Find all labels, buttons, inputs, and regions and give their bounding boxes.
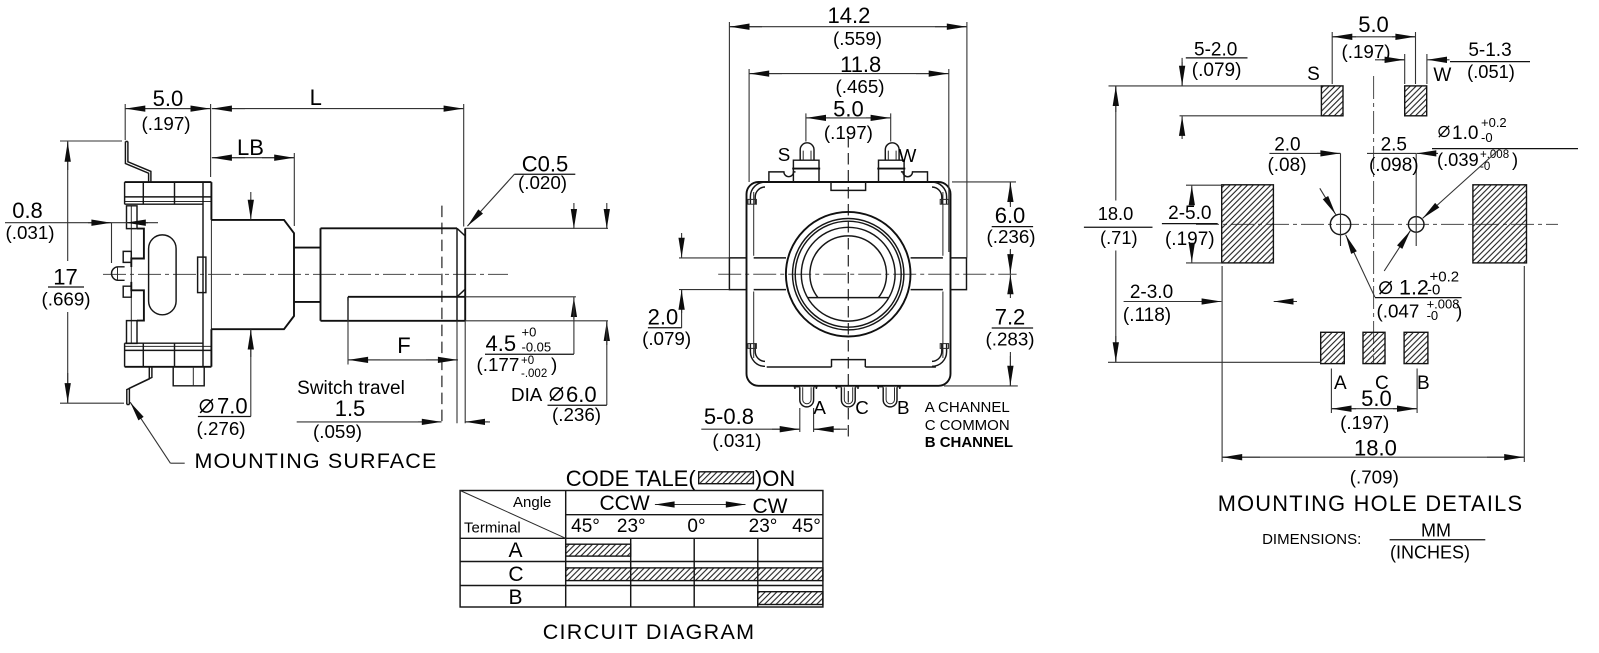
slot B [1404,332,1428,363]
dim LB [212,153,294,226]
svg-text:CIRCUIT DIAGRAM: CIRCUIT DIAGRAM [543,620,756,644]
svg-text:(.051): (.051) [1467,61,1515,82]
svg-text:(.669): (.669) [41,289,90,310]
bracket clip upper [123,251,131,262]
svg-text:(.020): (.020) [518,172,567,193]
dim L [212,104,464,227]
top ear left [769,172,796,182]
svg-text:Angle: Angle [513,494,551,511]
svg-text:(.197): (.197) [141,113,190,134]
side slot right [1473,185,1527,263]
dim 5.0 bottom [1331,369,1417,414]
bracket clip lower [123,286,131,297]
shaft chamfer lines [457,228,465,320]
top mounting plate [125,181,212,183]
svg-text:+.008: +.008 [1480,149,1509,161]
slot A [1321,332,1345,363]
svg-text:18.0: 18.0 [1354,436,1397,461]
svg-text:(.039: (.039 [1437,149,1479,170]
svg-text:(.08): (.08) [1267,155,1306,176]
svg-text:): ) [1512,149,1518,170]
hatch sample [699,472,754,484]
svg-text:1.0: 1.0 [1452,123,1478,144]
svg-text:(.197): (.197) [1340,412,1389,433]
svg-text:-0: -0 [1427,308,1439,323]
terminal pin C [841,387,855,407]
corner curl bottom-right [932,343,947,366]
svg-text:23°: 23° [617,516,646,537]
shaft flat chord [808,297,889,299]
dim 5-0.8 pins [800,408,814,432]
svg-text:2-3.0: 2-3.0 [1130,282,1173,303]
svg-text:(.177: (.177 [477,354,520,375]
svg-text:7.0: 7.0 [217,394,248,419]
dim 17 left [60,141,124,403]
corner curl bottom-left [750,343,765,366]
svg-text:(.236): (.236) [552,404,601,425]
top mounting leg [125,142,150,183]
bottom terminal tab [173,367,204,386]
extension of shaft edges [457,228,608,423]
svg-text:): ) [551,354,557,375]
svg-text:(.031): (.031) [712,430,761,451]
svg-text:-.002: -.002 [521,368,547,380]
svg-text:5.0: 5.0 [1358,12,1389,37]
svg-text:14.2: 14.2 [827,3,870,28]
svg-text:6.0: 6.0 [995,203,1026,228]
svg-text:23°: 23° [749,516,778,537]
ring double [793,219,904,330]
side tab right [951,258,967,290]
top ear right [901,172,928,182]
svg-text:0°: 0° [687,516,705,537]
svg-text:A: A [508,539,522,562]
svg-text:11.8: 11.8 [840,52,881,77]
slot W [1405,86,1427,116]
dim 5.0 terminals [806,113,891,141]
corner curl top-left [750,182,765,204]
svg-text:(.031): (.031) [5,222,54,243]
ring outer thick [786,212,911,337]
svg-text:(.465): (.465) [835,76,884,97]
svg-text:A: A [1334,373,1347,394]
inner slot lines [754,258,943,290]
dim 5.0 top-left [125,104,210,177]
pilot hole 1.2 [1330,214,1350,234]
svg-text:(.709): (.709) [1350,467,1399,488]
horizontal centerline [103,273,508,275]
dim 5.0 top [1332,32,1415,84]
center peg [112,267,125,281]
slot C [1363,332,1385,363]
bar A [566,544,631,556]
svg-text:(.059): (.059) [313,421,362,442]
svg-text:LB: LB [237,135,264,160]
svg-text:-0: -0 [1480,161,1490,173]
vertical centerline dashed [847,136,849,437]
svg-text:B: B [1417,373,1430,394]
svg-text:+0: +0 [522,325,537,340]
dim 6.0 right [952,182,1016,204]
svg-text:DIMENSIONS:: DIMENSIONS: [1262,531,1361,548]
horizontal centerline [1196,223,1558,225]
dia 1.2 label [1380,281,1392,294]
svg-text:2-5.0: 2-5.0 [1168,203,1211,224]
bar C [566,568,823,581]
dim 11.8 [749,69,949,252]
front plate verticals [202,182,204,367]
bracket tooth lower [127,321,138,344]
svg-text:)ON: )ON [755,466,795,491]
dim 18.0 vertical [1108,86,1321,362]
bottom notch [832,360,866,367]
svg-text:(.197): (.197) [824,122,873,143]
svg-text:B: B [508,586,522,609]
svg-text:5.0: 5.0 [153,86,184,111]
shaft outline [321,228,466,320]
dim F [348,301,458,365]
svg-text:+0: +0 [521,355,534,367]
svg-text:5.0: 5.0 [1361,386,1392,411]
svg-text:2.0: 2.0 [648,305,679,330]
svg-text:0.8: 0.8 [12,198,43,223]
flat start edge [347,297,349,321]
svg-text:7.2: 7.2 [995,305,1026,330]
svg-text:MM: MM [1421,521,1451,541]
bracket step upper [131,229,144,267]
svg-text:4.5: 4.5 [486,331,517,356]
svg-text:(INCHES): (INCHES) [1390,543,1470,563]
svg-text:5-0.8: 5-0.8 [704,404,754,429]
svg-text:(.079): (.079) [642,328,691,349]
interior slot [149,235,177,315]
svg-text:+0.2: +0.2 [1481,115,1507,130]
dim 18.0 bottom [1222,266,1524,462]
horizontal centerline [718,273,1016,275]
svg-text:CW: CW [753,495,788,518]
threaded bushing [211,220,294,329]
dim dia 7.0 [250,192,252,220]
svg-text:5.0: 5.0 [833,97,864,122]
corner curl top-right [932,182,947,204]
svg-text:MOUNTING HOLE DETAILS: MOUNTING HOLE DETAILS [1218,491,1524,516]
svg-text:(.047: (.047 [1377,301,1420,322]
slot S [1321,86,1343,116]
svg-text:F: F [397,333,410,358]
collar step [294,248,321,302]
header diagonal [460,491,566,539]
svg-text:5-1.3: 5-1.3 [1468,40,1511,61]
svg-text:S: S [1307,64,1320,85]
svg-text:2.5: 2.5 [1381,135,1407,156]
svg-text:(.197): (.197) [1165,229,1215,250]
svg-text:C: C [855,397,869,418]
svg-text:(.079): (.079) [1192,60,1242,81]
svg-text:S: S [778,144,791,165]
svg-text:): ) [1456,301,1462,322]
svg-text:B: B [897,397,910,418]
dashed pressed-shaft line (switch travel) [441,206,443,424]
body inner verticals [754,192,943,358]
pcb edge lines top [1109,86,1322,116]
svg-text:1.2: 1.2 [1399,276,1429,300]
svg-text:(.197): (.197) [1341,41,1390,62]
svg-text:45°: 45° [571,516,600,537]
dim 2.0 left tab [679,258,729,328]
shaft inner circle [810,236,887,298]
svg-text:W: W [1433,65,1451,86]
bracket step lower [131,282,144,321]
bracket inner edge [130,206,132,343]
svg-text:B CHANNEL: B CHANNEL [925,434,1013,451]
body outer [747,182,951,386]
svg-text:-0: -0 [1481,130,1493,145]
dia 1.0 label [1439,126,1449,137]
svg-text:C COMMON: C COMMON [925,417,1010,434]
svg-text:45°: 45° [792,516,821,537]
dim 7.2 right [1009,275,1011,298]
terminal W [879,160,905,182]
pilot hole 1.0 [1408,217,1424,233]
mounting surface leader [170,462,184,464]
svg-text:(.098): (.098) [1369,155,1419,176]
svg-text:W: W [899,145,917,166]
svg-text:17: 17 [53,265,77,290]
table lines [460,491,823,608]
svg-text:CCW: CCW [600,492,650,515]
dim 4.5 flat [573,203,575,229]
bottom mounting plate [125,343,212,350]
svg-text:(.236): (.236) [986,226,1035,247]
svg-text:-0.05: -0.05 [522,340,552,355]
svg-text:CODE TALE(: CODE TALE( [566,466,697,491]
svg-text:Terminal: Terminal [464,520,521,537]
svg-text:2.0: 2.0 [1274,135,1300,156]
svg-text:A CHANNEL: A CHANNEL [925,399,1010,416]
terminal pin B [883,387,897,407]
terminal pin A [800,387,814,407]
bottom mounting leg [127,367,152,405]
terminal S [793,160,819,182]
svg-text:L: L [310,85,322,110]
svg-text:(.283): (.283) [985,329,1034,350]
shaft circle [801,227,895,321]
bottom cap line [767,366,936,368]
table frame [460,491,823,608]
svg-text:C: C [508,563,523,586]
svg-text:A: A [813,397,826,418]
svg-text:18.0: 18.0 [1098,203,1134,224]
svg-text:(.118): (.118) [1123,305,1171,326]
bracket tooth upper [127,206,138,229]
svg-text:(.559): (.559) [833,28,882,49]
dim dia 6.0 [606,203,608,229]
side tab left [729,258,746,290]
right boss [198,257,206,293]
vertical centerline [1373,76,1375,364]
dim 5-1.3 [1375,54,1427,84]
side slot left [1222,185,1274,263]
svg-text:(.71): (.71) [1100,227,1138,248]
svg-text:MOUNTING SURFACE: MOUNTING SURFACE [195,449,438,473]
top notch [831,182,866,190]
dim 14.2 [729,22,967,258]
svg-text:+0.2: +0.2 [1430,269,1460,286]
svg-text:DIA: DIA [511,384,543,405]
svg-text:1.5: 1.5 [335,396,366,421]
bar B [758,592,823,605]
svg-text:(.276): (.276) [196,418,245,439]
